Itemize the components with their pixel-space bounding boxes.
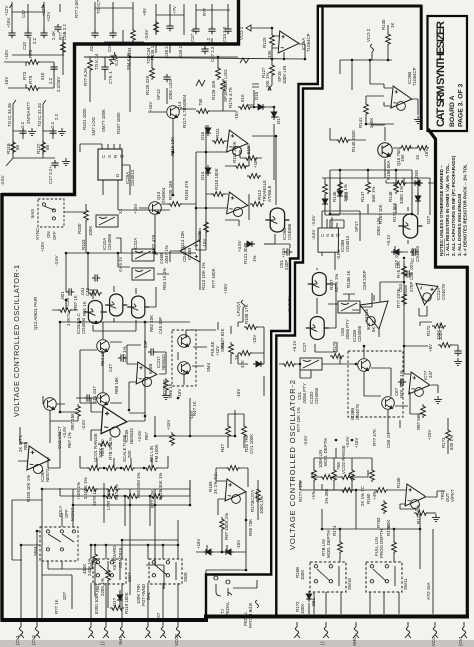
svg-text:R114 10K: R114 10K [180, 231, 185, 250]
diode D16 [205, 125, 211, 136]
svg-text:2.2: 2.2 [32, 37, 37, 44]
svg-text:100K: 100K [98, 448, 103, 458]
resistor R12B [41, 140, 46, 154]
svg-text:1%: 1% [252, 256, 257, 262]
svg-text:1 2K?L: 1 2K?L [66, 312, 71, 326]
ground c65 [454, 358, 462, 365]
svg-text:C5B 2.2: C5B 2.2 [62, 24, 67, 40]
svg-text:750: 750 [198, 98, 203, 106]
wire gate33d [395, 207, 408, 252]
diode D28 [391, 249, 402, 255]
svg-text:STABLE: STABLE [267, 185, 272, 202]
resistor R78 [26, 60, 40, 65]
svg-text:R113 1DK 1%: R113 1DK 1% [201, 262, 206, 290]
svg-text:R50? 82K: R50? 82K [220, 328, 225, 348]
wire q11 [178, 330, 216, 385]
capacitor C43 [118, 354, 126, 361]
wire vco2 top [340, 25, 392, 90]
pot arrow sp15 [268, 77, 272, 90]
resistor R164 [338, 540, 343, 554]
svg-text:UNLESS OTHERWISE MARKED –: UNLESS OTHERWISE MARKED – [439, 165, 444, 238]
op-amp IC34A [409, 372, 431, 396]
wire ff2 [322, 211, 360, 270]
capacitor C17c [51, 160, 58, 168]
svg-text:NE5532: NE5532 [129, 428, 134, 444]
diode D19 [223, 549, 234, 555]
svg-text:BOARD A: BOARD A [449, 95, 456, 127]
gate IC26Bg [265, 208, 289, 232]
svg-text:CS4069: CS4069 [415, 246, 420, 262]
svg-text:C40: C40 [85, 287, 90, 296]
svg-text:2.2/25V: 2.2/25V [56, 77, 61, 92]
svg-text:+12V: +12V [46, 12, 51, 22]
svg-text:1. ALL RESISTORS IN OHMS ¼W, 5: 1. ALL RESISTORS IN OHMS ¼W, 5% TOL. [444, 164, 450, 257]
svg-text:2.2: 2.2 [48, 77, 53, 84]
svg-text:VOLTAGE CONTROLLED OSCILLATOR-: VOLTAGE CONTROLLED OSCILLATOR-1 [12, 265, 21, 417]
svg-text:D2?: D2? [426, 215, 431, 224]
svg-text:3D?: 3D? [62, 591, 67, 600]
svg-text:1% 39K: 1% 39K [324, 489, 329, 504]
capacitor C44 [84, 394, 92, 401]
svg-text:+1%: +1% [311, 491, 316, 500]
svg-text:R11B 30K 1%: R11B 30K 1% [158, 473, 163, 500]
wire gate26b [252, 136, 276, 244]
svg-text:2.3K: 2.3K [51, 31, 56, 40]
ground ic31a [162, 392, 170, 399]
op-amp IC31B [101, 406, 128, 435]
svg-text:R1?6: R1?6 [386, 525, 391, 536]
svg-text:R7B 1K 1%: R7B 1K 1% [108, 437, 113, 460]
mark 11 [248, 84, 259, 105]
svg-text:+15V: +15V [223, 284, 228, 294]
wire q12 [60, 322, 190, 403]
resistor R91 [88, 291, 102, 296]
svg-text:(CV1: (CV1 [15, 634, 20, 645]
resistor R11B [11, 140, 16, 154]
resistor R145 10K [402, 264, 407, 278]
svg-text:D1?: D1? [276, 115, 281, 124]
svg-text:.0068 PTY: .0068 PTY [345, 319, 350, 340]
capacitor C34 [40, 30, 47, 38]
svg-text:D30: D30 [414, 169, 419, 178]
svg-text:S.2K: S.2K [114, 56, 119, 66]
wire bankB [60, 480, 190, 526]
resistor R166 [392, 540, 397, 554]
svg-text:VCO2 RANGE: VCO2 RANGE [341, 445, 346, 474]
resistor R151 [415, 146, 429, 151]
svg-text:NOTES:: NOTES: [439, 238, 444, 256]
svg-text:1M? LOG: 1M? LOG [91, 116, 96, 136]
svg-text:SW7: SW7 [127, 572, 132, 582]
transistor Q12b [97, 393, 110, 406]
connector pulse1 [103, 622, 109, 638]
resistor R153b [382, 500, 387, 514]
resistor band2a [320, 475, 334, 480]
ground C15 [28, 128, 36, 135]
svg-text:2. ALL CAPACITORS IN MF (P= PI: 2. ALL CAPACITORS IN MF (P= PICOFARADS) [451, 155, 456, 256]
svg-text:PEDAL: PEDAL [225, 601, 230, 616]
svg-text:R50 20M 1%: R50 20M 1% [136, 473, 141, 498]
resistor R77 [61, 40, 66, 54]
svg-text:CV1 100K: CV1 100K [249, 434, 254, 454]
svg-text:R110 100K: R110 100K [214, 168, 219, 190]
connector saw2 [294, 622, 300, 638]
svg-text:R111: R111 [215, 128, 220, 138]
border notes jog [428, 129, 469, 267]
diode D20 [337, 188, 343, 199]
svg-text:R: R [113, 155, 118, 158]
svg-text:R128 10K: R128 10K [211, 80, 216, 100]
resistor RB1 [106, 568, 111, 582]
svg-text:CD4093: CD4093 [81, 317, 86, 334]
svg-text:100K: 100K [300, 570, 305, 580]
transistor Q11b [178, 362, 191, 375]
border bottom VCO1 [1, 618, 209, 622]
arrow pedal patch [256, 600, 259, 608]
svg-text:2.2: 2.2 [54, 113, 59, 120]
svg-text:R160: R160 [396, 477, 401, 488]
wire q13 [139, 204, 196, 253]
connector SHO [353, 622, 359, 638]
resistor R86 [164, 378, 169, 392]
svg-text:R79: R79 [28, 75, 33, 84]
resistor R143 23K [402, 292, 407, 306]
svg-text:100K: 100K [300, 604, 305, 614]
svg-text:330K 1%: 330K 1% [399, 186, 404, 204]
svg-text:R7?: R7? [26, 101, 31, 110]
resistor R122 [88, 58, 93, 72]
svg-text:R?? 8.2K: R?? 8.2K [83, 68, 88, 86]
svg-text:+15V: +15V [6, 18, 11, 28]
wire d15 [252, 107, 274, 180]
svg-text:MONO: MONO [70, 507, 75, 521]
border top-right [317, 5, 423, 8]
gate IC36B [306, 317, 329, 340]
resistor band2b [340, 475, 354, 480]
svg-text:⌊⌉: ⌊⌉ [320, 641, 325, 645]
svg-text:-3.6V: -3.6V [81, 419, 86, 430]
svg-text:TL064CP: TL064CP [306, 33, 311, 52]
svg-text:2E7K 1%: 2E7K 1% [334, 274, 339, 292]
svg-text:VCO2: VCO2 [174, 633, 179, 646]
cluster 4 top right caps [196, 10, 230, 44]
diode D8 [253, 361, 264, 367]
svg-text:PAGE 3. OF 3: PAGE 3. OF 3 [458, 83, 465, 127]
gate IC33A [84, 301, 107, 324]
svg-text:SH1: SH1 [118, 636, 123, 645]
connector SH1 [119, 622, 125, 638]
svg-text:CS40B5: CS40B5 [287, 223, 292, 240]
svg-text:-15V: -15V [236, 389, 241, 398]
svg-text:1K: 1K [415, 155, 420, 160]
resistor R108b [244, 325, 258, 330]
svg-text:R1?2: R1?2 [426, 325, 431, 336]
op-amp IC37B (tilted down) [360, 301, 388, 329]
title box [428, 16, 468, 131]
divider staircase left line [206, 5, 318, 619]
ground C17c [62, 158, 70, 165]
border right edge [466, 266, 469, 617]
opamp circle 37a [232, 495, 241, 504]
svg-text:R108 17K: R108 17K [244, 304, 249, 324]
svg-text:C: C [101, 155, 106, 158]
svg-text:D14: D14 [200, 171, 205, 180]
svg-text:+5V: +5V [142, 8, 147, 16]
tgate IC32B [132, 249, 154, 261]
svg-text:+15V: +15V [4, 50, 9, 60]
resistor R120 [110, 606, 124, 611]
resistor L2 [366, 180, 371, 194]
resistor R110 [211, 192, 225, 197]
svg-text:C?9 .1: C?9 .1 [108, 71, 113, 84]
diode D15 [255, 104, 266, 110]
resistor R135 [154, 20, 159, 34]
svg-text:R1?3: R1?3 [250, 501, 255, 512]
wire Q14 connections [148, 93, 236, 195]
resistor R140 [282, 362, 296, 367]
wire d22 [417, 178, 419, 215]
connector VCO2c [175, 622, 181, 638]
capacitor C39 [66, 288, 74, 295]
svg-text:20K: 20K [127, 450, 132, 458]
connector arrow lfo [242, 300, 245, 322]
resistor bankA3 [121, 466, 135, 471]
capacitor C48 [166, 23, 173, 31]
svg-text:56K 1%: 56K 1% [371, 187, 376, 202]
svg-text:C6? .01: C6? .01 [394, 252, 399, 268]
ground ic34 [434, 396, 442, 403]
svg-text:R101 100K: R101 100K [82, 108, 87, 130]
diode D14 [205, 165, 211, 176]
wire ic37a [216, 468, 248, 520]
svg-text:SM7? 100K: SM7? 100K [101, 109, 106, 132]
svg-text:D: D [115, 174, 120, 177]
opamp circle 28a [33, 464, 42, 473]
svg-text:68: 68 [15, 145, 20, 150]
svg-text:C37 .1: C37 .1 [190, 29, 195, 42]
wire ic30b [400, 491, 445, 511]
svg-text:3. ALL DIODES IN914/IN4148: 3. ALL DIODES IN914/IN4148 [457, 193, 462, 256]
capacitor C33 [224, 26, 231, 34]
opamp circle 26b [397, 102, 406, 111]
svg-text:.0056 PTY: .0056 PTY [302, 383, 307, 404]
capacitor extra1 [201, 46, 208, 54]
wire lfo [238, 322, 264, 396]
svg-text:+3.6V: +3.6V [137, 430, 142, 442]
svg-text:CAT SRM SYNTHESIZER: CAT SRM SYNTHESIZER [435, 21, 447, 127]
svg-text:R?? 47K: R?? 47K [372, 429, 377, 446]
jack TJ pedal [214, 576, 257, 596]
svg-text:-15V: -15V [424, 149, 429, 158]
svg-text:SW11: SW11 [403, 578, 408, 590]
capacitor C65 [454, 348, 461, 356]
resistor R108 [204, 220, 209, 234]
svg-text:R10? 100K: R10? 100K [116, 112, 121, 134]
svg-text:+9.1V: +9.1V [292, 340, 297, 352]
connector arrow vco1 [246, 25, 272, 31]
svg-text:+15V: +15V [166, 420, 171, 430]
svg-text:R4?: R4? [220, 443, 225, 452]
svg-text:C33 2.2: C33 2.2 [222, 26, 227, 42]
resistor R134b [108, 51, 117, 66]
svg-text:R145 330K: R145 330K [351, 130, 356, 152]
svg-text:243K,1%: 243K,1% [87, 558, 92, 576]
transistor Q18 [382, 397, 395, 410]
switch SW11 dashed box [366, 562, 402, 592]
switch SW10 dashed box [310, 562, 346, 592]
svg-text:-3.6V: -3.6V [311, 215, 316, 226]
svg-text:347: 347 [428, 370, 433, 378]
diode D22 [415, 193, 421, 204]
svg-text:2K 1% T.C.: 2K 1% T.C. [213, 472, 218, 494]
svg-text:-15V: -15V [202, 239, 207, 248]
svg-text:510: 510 [40, 72, 45, 80]
svg-text:620 1%: 620 1% [449, 435, 454, 450]
svg-text:C4?: C4? [21, 9, 26, 18]
power rail +15V row [4, 62, 54, 88]
resistor bank2 r2 [332, 468, 337, 482]
svg-text:D20: D20 [344, 191, 349, 200]
resistor R129 [270, 33, 275, 47]
diode D21 [322, 196, 328, 207]
svg-text:+?V: +?V [172, 6, 177, 14]
resistor R169 [226, 466, 240, 471]
svg-text:MOD. DEPTH: MOD. DEPTH [326, 530, 331, 558]
switch SW4 dashed box [40, 527, 78, 561]
transistor Q17 [358, 359, 371, 372]
svg-text:-15V: -15V [236, 540, 241, 549]
resistor R89 [98, 442, 112, 447]
svg-text:SHO: SHO [352, 636, 357, 646]
svg-text:OFF: OFF [52, 231, 57, 240]
tgate IC32C [132, 268, 154, 280]
resistor R145 [336, 138, 350, 143]
svg-text:R1?? +1%: R1?? +1% [298, 481, 303, 502]
wire bus x206 [196, 125, 249, 250]
wire row1 [42, 480, 190, 620]
wire ic31a2 [419, 306, 432, 326]
svg-text:D1?: D1? [112, 597, 117, 606]
diode D51 [306, 591, 312, 602]
resistor R93 [220, 517, 225, 531]
resistor R163s [256, 488, 261, 502]
svg-text:C45 33P: C45 33P [158, 317, 163, 334]
wire K row [300, 480, 406, 529]
resistor bankA4 [144, 466, 158, 471]
resistor bankB3 [150, 494, 164, 499]
connector tri1 [145, 622, 151, 638]
svg-text:SP17: SP17 [354, 221, 359, 232]
svg-text:10K 1%: 10K 1% [265, 73, 270, 88]
wire bank2 [314, 448, 372, 490]
resistor R127 [270, 63, 275, 77]
svg-text:5L0B: 5L0B [148, 364, 153, 374]
resistor bankA1 [87, 466, 101, 471]
wire ic26b [366, 84, 418, 124]
ground ic26b [414, 116, 422, 123]
svg-text:+15V: +15V [40, 242, 45, 252]
svg-text:2K 1% TC: 2K 1% TC [360, 486, 365, 506]
svg-text:C59 220P: C59 220P [362, 270, 367, 290]
resistor r1r [84, 487, 98, 492]
svg-text:TO IC?: TO IC? [96, 0, 101, 14]
svg-text:VOLTAGE CONTROLLED OSCILLATOR-: VOLTAGE CONTROLLED OSCILLATOR-2 [288, 380, 297, 550]
connector sine2 [432, 622, 438, 638]
border title jog [420, 6, 423, 130]
mid-left cluster wires [6, 100, 55, 166]
resistor R130 [386, 32, 391, 46]
resistor R124b [196, 109, 210, 114]
wire tgate c60 [328, 293, 372, 307]
svg-text:R1?4: R1?4 [332, 525, 337, 536]
resistor R105 [168, 202, 182, 207]
resistor R111 [212, 139, 226, 144]
svg-text:CD4013: CD4013 [345, 235, 350, 252]
wire d17 d19 [196, 520, 246, 575]
svg-text:R125 22K: R125 22K [145, 75, 150, 95]
wire ic31a [127, 345, 166, 410]
flip-flop IC25B [318, 228, 338, 252]
svg-text:CD4066: CD4066 [357, 325, 362, 342]
resistor R115 [244, 156, 258, 161]
svg-text:R113 220K: R113 220K [232, 141, 237, 163]
wire r172b [428, 512, 436, 514]
svg-text:C58 .01: C58 .01 [386, 432, 391, 448]
svg-text:15K: 15K [400, 154, 405, 162]
svg-text:33P: 33P [143, 340, 148, 348]
svg-text:(CV2: (CV2 [31, 634, 36, 645]
svg-text:C65 .022: C65 .022 [409, 262, 414, 280]
svg-text:+15V: +15V [133, 204, 138, 214]
svg-text:C4546: C4546 [364, 309, 369, 322]
svg-text:R130: R130 [381, 19, 386, 30]
wire r100 [74, 204, 86, 253]
capacitor C37 [192, 26, 199, 34]
resistor R159 [421, 404, 426, 418]
svg-text:(CV1: (CV1 [458, 635, 463, 646]
svg-text:R73: R73 [22, 71, 27, 80]
svg-text:VCO 1: VCO 1 [239, 26, 244, 40]
transistor Q11a [178, 335, 191, 348]
opamp circle 30b [411, 500, 420, 509]
connector arrow vco2 [371, 44, 374, 60]
svg-text:C44 .047: C44 .047 [92, 386, 97, 404]
svg-text:CD4066: CD4066 [314, 387, 319, 404]
resistor bankB2 [125, 494, 139, 499]
opamp circle 31a [142, 377, 151, 386]
wire sw drop lines [91, 520, 178, 618]
svg-text:R??: R?? [202, 7, 207, 16]
diode D13 [117, 592, 123, 603]
resistor bank2 r4 [370, 468, 375, 482]
svg-text:R121 30K: R121 30K [243, 244, 248, 264]
svg-text:R146: R146 [332, 191, 337, 202]
capacitor C15b [49, 128, 56, 136]
capacitor C17 [24, 30, 31, 38]
svg-text:+15V: +15V [281, 248, 286, 258]
svg-text:⌊⌉: ⌊⌉ [100, 641, 105, 645]
svg-text:R100: R100 [77, 223, 82, 234]
cluster 3 wires [156, 15, 184, 53]
capacitor C47 [163, 74, 170, 82]
tgate C61 [300, 358, 322, 370]
svg-text:2.2: 2.2 [50, 121, 55, 128]
border top-left L (VCO1 top) [2, 0, 239, 195]
svg-text:510K: 510K [246, 144, 251, 154]
opamp circle 31b [110, 427, 120, 437]
resistor L3 [394, 180, 399, 194]
svg-text:-3.6V: -3.6V [0, 175, 5, 186]
